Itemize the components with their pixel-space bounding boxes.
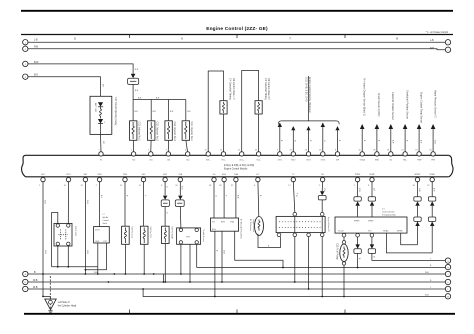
svg-text:MPMP: MPMP xyxy=(415,174,421,176)
svg-text:the Cylinder Head: the Cylinder Head xyxy=(58,304,77,307)
noise filter EFI xyxy=(128,74,139,85)
svg-text:#20: #20 xyxy=(149,159,152,161)
svg-text:IGT2: IGT2 xyxy=(291,159,295,161)
svg-text:31: 31 xyxy=(429,150,431,152)
top ruler line xyxy=(21,35,453,41)
svg-text:VPMP: VPMP xyxy=(368,220,374,222)
injector C4 No.4 xyxy=(182,121,193,152)
svg-text:#40: #40 xyxy=(186,159,189,161)
svg-text:4: 4 xyxy=(25,77,26,79)
svg-text:IGT3: IGT3 xyxy=(306,159,310,161)
connector circle right bottom 6 xyxy=(445,294,450,299)
heated oxygen sensor oval xyxy=(249,217,264,236)
svg-text:18: 18 xyxy=(209,185,211,187)
svg-text:PIM: PIM xyxy=(431,159,435,161)
svg-text:E02: E02 xyxy=(84,174,87,176)
relay C17 circuit opening relay xyxy=(90,96,117,134)
idle air control valve label xyxy=(103,214,110,225)
svg-text:15: 15 xyxy=(358,150,360,152)
ground wire L1 xyxy=(28,272,445,274)
svg-text:12: 12 xyxy=(220,150,222,152)
svg-text:2: 2 xyxy=(319,185,320,187)
svg-text:C13, Injector No.3: C13, Injector No.3 xyxy=(173,122,176,142)
ECM top pin names xyxy=(100,158,435,161)
svg-text:6: 6 xyxy=(161,185,162,187)
connector circle right bottom 2 xyxy=(445,264,450,269)
svg-text:C13 Fuel Pump: C13 Fuel Pump xyxy=(336,243,339,260)
svg-text:HOAD: HOAD xyxy=(383,229,389,232)
svg-text:27: 27 xyxy=(401,150,403,152)
wire VPMP filter stack xyxy=(368,181,375,217)
wire VTA down xyxy=(180,181,182,195)
extra wire color labels xyxy=(44,188,435,260)
sensor wire 3 camshaft position xyxy=(389,92,395,152)
svg-text:Engine Control Module (Shielde: Engine Control Module (Shielded) xyxy=(308,77,311,113)
connector circle 4 left xyxy=(23,74,28,79)
svg-text:Control: Control xyxy=(103,219,110,222)
svg-text:SIL: SIL xyxy=(321,174,324,176)
svg-text:Pump Assembly: Pump Assembly xyxy=(382,214,396,217)
wire W4 B-O to relay xyxy=(28,75,103,97)
svg-text:I 7: I 7 xyxy=(103,214,105,216)
svg-text:L-B: L-B xyxy=(430,40,434,42)
connector circle right bottom 3 xyxy=(445,271,450,276)
svg-text:26: 26 xyxy=(387,150,389,152)
ECM right break edge xyxy=(449,155,453,177)
wire HT down xyxy=(258,181,261,216)
svg-text:25: 25 xyxy=(427,185,429,187)
ECM top pin circles xyxy=(99,152,436,156)
svg-text:19: 19 xyxy=(415,150,417,152)
svg-text:31: 31 xyxy=(231,185,233,187)
svg-text:W: W xyxy=(295,195,297,197)
connector circle 2 left xyxy=(23,46,28,51)
junction dots L4 xyxy=(214,296,345,298)
ECM bottom pin circles xyxy=(41,177,435,181)
wire relay to ECM xyxy=(101,134,105,151)
svg-text:W-B: W-B xyxy=(33,287,38,289)
filter below PPMP xyxy=(354,237,361,268)
wire EVP down xyxy=(165,181,167,195)
svg-text:23: 23 xyxy=(290,150,292,152)
oil control valve C4 LH xyxy=(208,71,235,152)
svg-text:W: W xyxy=(294,140,296,142)
svg-text:21: 21 xyxy=(238,150,240,152)
shielded wire 3 xyxy=(306,126,311,152)
svg-text:BATT / EFI: BATT / EFI xyxy=(94,103,97,113)
svg-text:VVL-: VVL- xyxy=(221,159,226,161)
svg-text:5: 5 xyxy=(447,43,448,45)
svg-text:B1 S1 Heated: B1 S1 Heated xyxy=(249,219,252,231)
svg-text:W-B: W-B xyxy=(33,280,38,282)
svg-text:Crankshaft Position Sensor: Crankshaft Position Sensor xyxy=(405,90,408,119)
svg-text:11: 11 xyxy=(205,150,207,152)
connector circle B left bottom xyxy=(23,279,28,284)
svg-text:4: 4 xyxy=(254,185,255,187)
throttle position sensor box xyxy=(177,228,205,244)
fuel pump oval xyxy=(340,237,348,297)
svg-text:C17 Circuit Opening Relay: C17 Circuit Opening Relay xyxy=(114,97,117,126)
junction dots L3 xyxy=(308,288,310,290)
shielded wire 5 xyxy=(335,126,340,152)
svg-text:PPMP: PPMP xyxy=(354,220,360,222)
svg-text:DUTY: DUTY xyxy=(95,230,101,232)
junction dots L2 xyxy=(108,281,296,283)
shield comb xyxy=(278,76,339,124)
svg-text:Oxygen Sensor: Oxygen Sensor xyxy=(252,219,255,232)
wire coil box2 down xyxy=(143,244,145,274)
wire WFSE route xyxy=(401,233,418,245)
svg-text:W: W xyxy=(373,256,375,258)
svg-text:8: 8 xyxy=(335,150,336,152)
svg-text:Oil Control Valve LH: Oil Control Valve LH xyxy=(232,78,235,100)
svg-text:20: 20 xyxy=(175,185,177,187)
svg-text:C12, Injector No.2: C12, Injector No.2 xyxy=(156,122,159,142)
connector circle 1 left xyxy=(23,40,28,45)
svg-text:Vapor Pressure Sensor *1: Vapor Pressure Sensor *1 xyxy=(433,90,436,118)
svg-text:B7 Mass Air Flow Meter: B7 Mass Air Flow Meter xyxy=(240,219,243,239)
ECM module label xyxy=(224,164,254,171)
svg-text:L-B: L-B xyxy=(34,39,38,41)
svg-text:V-W: V-W xyxy=(323,188,325,192)
svg-text:#30: #30 xyxy=(167,159,170,161)
ground wire L4 xyxy=(142,288,445,296)
svg-text:* 1 : w/ Cruise Control: * 1 : w/ Cruise Control xyxy=(426,31,449,34)
svg-text:1: 1 xyxy=(131,150,132,152)
wire drop injector 2 xyxy=(151,100,156,121)
injector feed line xyxy=(133,97,186,99)
svg-text:VPMP: VPMP xyxy=(369,174,375,176)
svg-text:L: L xyxy=(144,195,146,196)
sensor wire 1 heated oxygen xyxy=(360,78,366,152)
top border line xyxy=(21,10,453,12)
connector circle 5 right xyxy=(445,40,450,45)
svg-text:22: 22 xyxy=(255,150,257,152)
svg-text:9: 9 xyxy=(277,150,278,152)
wire EFI to injector feed xyxy=(133,84,139,99)
svg-text:11: 11 xyxy=(139,185,141,187)
svg-text:VPMP: VPMP xyxy=(430,174,436,176)
VSV coil box 3 xyxy=(162,226,174,243)
connector circle C left bottom xyxy=(23,286,28,291)
svg-text:VTC: VTC xyxy=(368,230,372,232)
wire drop injector 3 xyxy=(169,100,174,121)
svg-text:J: J xyxy=(448,274,449,276)
svg-text:EVG: EVG xyxy=(222,174,227,176)
ground wire L2 xyxy=(28,280,445,282)
svg-text:Valve: Valve xyxy=(103,223,108,225)
svg-text:5: 5 xyxy=(104,122,105,124)
svg-text:VSV For TVV: VSV For TVV xyxy=(149,227,152,239)
svg-text:B-L: B-L xyxy=(100,195,102,198)
connector circle right bottom 4 xyxy=(445,279,450,284)
leak detection pump box xyxy=(335,217,407,237)
svg-text:E 9(A), E 4(B), E 5(C), E 8(D): E 9(A), E 4(B), E 5(C), E 8(D) xyxy=(224,164,254,167)
ECM left break edge xyxy=(22,155,26,177)
svg-text:Leak Detection: Leak Detection xyxy=(382,211,395,214)
sensor wire 2 knock xyxy=(375,93,381,152)
svg-text:B-W: B-W xyxy=(433,188,435,192)
svg-text:R-W: R-W xyxy=(358,188,360,192)
oil control valve C2 RH xyxy=(242,71,270,153)
svg-text:VSV For CCV: VSV For CCV xyxy=(130,227,133,239)
ECM bottom line xyxy=(26,176,449,178)
injector C2 No.2 xyxy=(148,121,159,152)
connector circle A left bottom xyxy=(23,271,28,276)
wires MAF feeds xyxy=(214,181,238,218)
svg-text:10: 10 xyxy=(120,185,122,187)
svg-text:10: 10 xyxy=(319,150,321,152)
shielded wire 1 xyxy=(278,123,283,152)
svg-text:8: 8 xyxy=(368,185,369,187)
svg-text:Camshaft Position Sensor: Camshaft Position Sensor xyxy=(391,92,394,120)
wire drop injector 4 xyxy=(186,100,191,121)
svg-text:2: 2 xyxy=(96,185,97,187)
connector circle right bottom 1 xyxy=(445,258,450,263)
VSV for VVL 4-pin box xyxy=(54,223,76,246)
svg-text:5: 5 xyxy=(39,185,40,187)
svg-text:VTC: VTC xyxy=(103,241,107,243)
svg-text:IGT4: IGT4 xyxy=(321,159,325,161)
svg-text:R-B: R-B xyxy=(430,48,434,50)
svg-text:S 2J, B 4B, S 5C, S 4D: S 2J, B 4B, S 5C, S 4D xyxy=(305,77,308,102)
wire coil box3 down xyxy=(164,244,166,283)
svg-text:PPMP: PPMP xyxy=(355,174,361,176)
wire filter to coil box 3 xyxy=(165,207,167,227)
wire RSD down xyxy=(100,181,102,226)
ground E2 xyxy=(42,276,56,312)
svg-text:6: 6 xyxy=(447,50,448,52)
wire VPMP2 filter stack xyxy=(428,181,435,253)
idle air control valve box xyxy=(94,227,110,243)
wire drop injector 1 xyxy=(133,100,138,121)
fuel pump label xyxy=(336,243,339,260)
svg-text:Engine Room J/C: Engine Room J/C xyxy=(327,217,329,232)
svg-text:5 5: 5 5 xyxy=(382,209,385,211)
svg-text:Engine Coolant Temp Sensor: Engine Coolant Temp Sensor xyxy=(419,92,422,123)
wire IAC pins down xyxy=(85,243,107,274)
svg-text:C14, Injector No.4: C14, Injector No.4 xyxy=(190,122,193,142)
wire step L1 to L2 xyxy=(163,274,165,283)
wire VVLT jog xyxy=(52,181,69,267)
svg-text:29: 29 xyxy=(373,150,375,152)
bottom border line xyxy=(24,310,455,314)
svg-text:THW: THW xyxy=(417,159,422,161)
svg-text:24: 24 xyxy=(305,150,307,152)
svg-text:7: 7 xyxy=(354,185,355,187)
svg-text:14: 14 xyxy=(64,185,66,187)
noise filter VTA xyxy=(175,196,184,207)
right wire labels xyxy=(425,259,432,297)
svg-text:R-G: R-G xyxy=(181,186,183,190)
connector circle 3 left xyxy=(23,61,28,66)
svg-text:2: 2 xyxy=(148,150,149,152)
wire SIL filter xyxy=(318,181,326,212)
wire MPMP filter stack xyxy=(414,181,421,245)
wire PPMP filter stack xyxy=(354,181,361,217)
ECM bottom pin names xyxy=(41,173,435,176)
wire VSV pins down xyxy=(52,246,98,268)
sensor wire 5 coolant temp xyxy=(417,92,423,152)
svg-text:RSD: RSD xyxy=(98,174,103,176)
svg-text:EVG: EVG xyxy=(221,221,226,223)
svg-text:IGT1: IGT1 xyxy=(278,159,282,161)
injector C3 No.3 xyxy=(165,121,176,152)
wire W2 R-B xyxy=(28,47,445,50)
wires junction block down xyxy=(295,237,322,297)
ground label xyxy=(58,301,77,308)
svg-text:7: 7 xyxy=(98,150,99,152)
wire E02 down xyxy=(85,181,87,274)
svg-text:16: 16 xyxy=(413,185,415,187)
svg-text:E2G: E2G xyxy=(212,229,216,231)
svg-text:VSV For EVAP: VSV For EVAP xyxy=(170,227,173,240)
svg-text:PRG: PRG xyxy=(123,174,128,176)
wire W3 B-W to EFI xyxy=(28,62,139,74)
pump assembly label xyxy=(382,209,396,217)
svg-text:13: 13 xyxy=(80,185,82,187)
shielded wire 4 xyxy=(321,123,326,152)
wire oval to junction pin U xyxy=(258,234,281,248)
wires TPS down xyxy=(181,244,197,282)
svg-text:WFSE: WFSE xyxy=(397,230,403,232)
svg-text:C4 Camshaft Timing: C4 Camshaft Timing xyxy=(229,78,232,100)
connector circle 6 right xyxy=(445,47,450,52)
connector circle right bottom 5 xyxy=(445,286,450,291)
injector C1 No.1 xyxy=(130,121,141,152)
wire HOAD route xyxy=(386,233,432,253)
wire PRG down xyxy=(125,181,127,226)
svg-text:C2 Camshaft Timing: C2 Camshaft Timing xyxy=(264,78,267,100)
svg-text:R-B: R-B xyxy=(34,47,38,49)
svg-text:E01: E01 xyxy=(41,174,44,176)
wires MAF down xyxy=(215,231,283,296)
wire TC down xyxy=(293,181,297,212)
svg-text:C11, Injector No.1: C11, Injector No.1 xyxy=(138,122,141,142)
mass air flow meter box xyxy=(211,218,243,239)
wire coil box1 down xyxy=(124,244,126,274)
svg-text:VSV F VVLT: VSV F VVLT xyxy=(74,226,76,237)
svg-text:Knock Sensor 1 (2ZZ): Knock Sensor 1 (2ZZ) xyxy=(377,93,380,117)
filter below VPMP xyxy=(368,237,445,260)
wire filter to TPS xyxy=(179,207,182,229)
wire E01 down xyxy=(43,181,45,296)
noise filter EVP xyxy=(161,196,169,207)
svg-text:OC1-: OC1- xyxy=(256,159,261,161)
ECM top pin numbers xyxy=(98,150,431,152)
svg-text:#10: #10 xyxy=(132,159,135,161)
svg-text:3: 3 xyxy=(166,150,167,152)
svg-text:4: 4 xyxy=(185,150,186,152)
svg-text:28: 28 xyxy=(219,185,221,187)
svg-text:OX1A: OX1A xyxy=(360,158,366,161)
svg-text:GND: GND xyxy=(95,241,100,243)
VSV coil box 1 xyxy=(122,226,134,244)
svg-text:Throttle Sensor: Throttle Sensor xyxy=(202,229,205,242)
junction dots L1 xyxy=(42,273,182,275)
ECM bottom pin numbers xyxy=(39,185,429,187)
sensor wire 6 vapor pressure xyxy=(431,90,437,152)
wire VSV down xyxy=(144,181,146,226)
svg-text:1: 1 xyxy=(25,42,26,44)
svg-text:Rr Heated Oxygen Sensor (Bank: Rr Heated Oxygen Sensor (Bank 1) xyxy=(363,78,366,116)
svg-text:Engine Control (2ZZ- GE): Engine Control (2ZZ- GE) xyxy=(206,26,268,32)
sensor wire 4 crankshaft position xyxy=(403,90,409,152)
svg-text:G2: G2 xyxy=(390,159,393,161)
svg-text:17: 17 xyxy=(288,185,290,187)
VSV coil box 2 xyxy=(140,226,152,244)
ground line TPS to right xyxy=(197,267,446,269)
wire W1 L-B xyxy=(28,39,445,42)
shielded wire 2 xyxy=(291,126,296,152)
ECM top line xyxy=(26,154,449,156)
junction connector block xyxy=(276,212,329,236)
svg-text:B-O: B-O xyxy=(34,75,38,77)
ground wire L3 xyxy=(28,287,445,289)
svg-text:Idle Air: Idle Air xyxy=(103,216,109,219)
svg-text:Engine Control Module: Engine Control Module xyxy=(224,167,248,170)
svg-text:Left Side of: Left Side of xyxy=(58,301,70,304)
svg-text:2: 2 xyxy=(25,49,26,51)
svg-text:L: L xyxy=(447,289,448,291)
svg-text:3: 3 xyxy=(25,64,26,66)
svg-text:Oil Control Valve RH: Oil Control Valve RH xyxy=(267,78,270,100)
svg-text:VC-2D: VC-2D xyxy=(338,230,344,232)
